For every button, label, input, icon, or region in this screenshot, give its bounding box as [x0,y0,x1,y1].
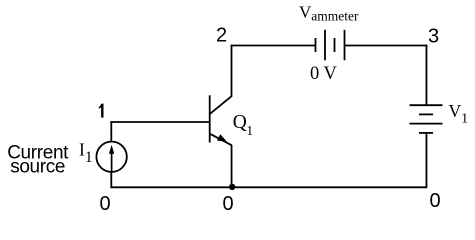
wire top right (ammeter battery to node 3) [345,45,428,47]
wire node-1 vertical drop to current source [110,121,112,142]
wire right vertical upper [425,45,427,105]
svg-text:2: 2 [216,25,227,47]
wire emitter vertical [231,145,233,187]
wire base (node 1 to Q1 base) [110,121,209,123]
svg-text:0: 0 [430,190,441,212]
node 1 label [99,104,104,118]
svg-text:0 V: 0 V [310,64,338,84]
svg-text:source: source [10,157,65,178]
wire below current source [110,172,112,188]
junction node dot [229,184,235,190]
wire top left (node 2 to ammeter battery) [231,45,316,47]
battery V1 [410,105,443,133]
svg-text:Q1: Q1 [233,112,253,138]
current source I1 [96,142,126,172]
svg-text:3: 3 [428,26,439,48]
transistor Q1 [210,95,232,145]
svg-text:V1: V1 [449,101,469,127]
svg-text:Vammeter: Vammeter [299,2,359,23]
svg-text:I1: I1 [79,140,93,167]
wire collector vertical [231,45,233,97]
battery V_ammeter [316,30,345,61]
wire bottom rail [110,186,427,188]
svg-text:0: 0 [100,193,111,215]
wire right vertical lower [425,133,427,187]
svg-text:0: 0 [223,193,234,215]
